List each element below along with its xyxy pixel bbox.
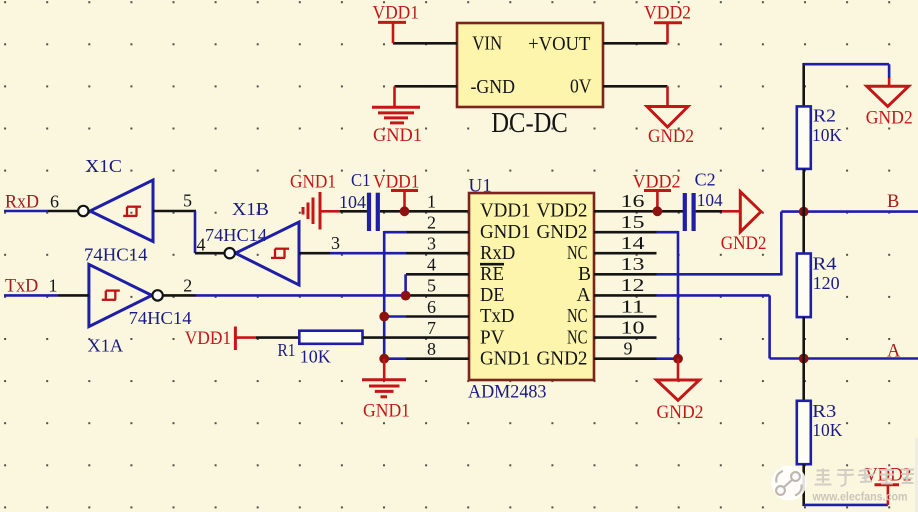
svg-text:14: 14 [621, 233, 645, 253]
wire X1B output [195, 252, 225, 255]
svg-text:RE: RE [480, 264, 504, 285]
wire X1C input [153, 210, 196, 213]
GND2 rail vertical [677, 231, 680, 359]
svg-text:2: 2 [183, 276, 192, 296]
svg-text:GND1: GND1 [373, 126, 422, 146]
svg-text:VIN: VIN [472, 34, 502, 55]
svg-text:X1B: X1B [232, 199, 269, 219]
wire pin6 to gnd rail [384, 315, 406, 318]
svg-text:4: 4 [427, 255, 436, 275]
svg-text:0V: 0V [570, 77, 592, 98]
watermark text (stylized) [815, 469, 915, 487]
svg-text:NC: NC [567, 243, 588, 264]
svg-text:2: 2 [427, 213, 436, 233]
wire +VOUT to VDD2 [603, 42, 668, 45]
ground GND2 (rotated right, at C2) [721, 192, 767, 254]
svg-text:GND1: GND1 [363, 402, 410, 422]
resistor R3 10K [797, 401, 843, 464]
wire R3 bottom [802, 464, 805, 506]
svg-text:A: A [887, 342, 901, 362]
inverter X1A (74HC14) [88, 264, 192, 355]
U1 right pin numbers 16-9 [621, 191, 645, 359]
watermark logo [772, 466, 807, 501]
ground GND1 (below U1) [362, 359, 410, 422]
svg-text:RxD: RxD [5, 193, 39, 213]
wire X1A output to U1 DE [163, 294, 196, 297]
wire TxD to X1A input [4, 294, 58, 297]
svg-text:VDD1: VDD1 [373, 4, 420, 24]
svg-text:VDD1: VDD1 [185, 329, 231, 349]
wire VDD1 to VIN [393, 42, 457, 45]
svg-text:74HC14: 74HC14 [129, 308, 192, 328]
svg-text:13: 13 [621, 254, 645, 274]
svg-text:11: 11 [621, 296, 645, 316]
resistor R1 10K [278, 331, 363, 367]
wire pin12 to A [657, 294, 770, 297]
svg-text:15: 15 [621, 212, 645, 232]
svg-text:5: 5 [427, 276, 436, 296]
junction pin9 [673, 354, 683, 364]
svg-text:NC: NC [567, 327, 588, 348]
svg-text:GND1: GND1 [480, 348, 531, 369]
power VDD1 (at U1 pin1) [373, 173, 420, 212]
power VDD2 (top right of DC-DC) [644, 4, 691, 44]
junction B [799, 207, 809, 217]
junction pin16/VDD2 [653, 206, 663, 216]
wire pin13 to B [657, 273, 782, 276]
svg-text:B: B [887, 192, 899, 212]
wire pin2 to gnd rail [384, 231, 407, 234]
svg-text:10K: 10K [300, 347, 331, 367]
svg-text:GND2: GND2 [866, 109, 913, 129]
hysteresis icon X1B [271, 249, 289, 258]
wire C2 to GND2 [696, 210, 722, 213]
wire VDD1 to R1 [256, 336, 299, 339]
svg-text:R2: R2 [813, 106, 836, 126]
svg-text:TxD: TxD [480, 306, 515, 327]
U1 left pin numbers 1-8 [427, 192, 436, 360]
IC U1 ADM2483 [468, 176, 594, 403]
svg-text:12: 12 [621, 275, 645, 295]
wire R4 bottom to A [802, 317, 805, 358]
svg-text:GND2: GND2 [648, 127, 694, 147]
svg-text:-GND: -GND [471, 77, 516, 98]
svg-text:6: 6 [50, 192, 59, 212]
svg-text:6: 6 [427, 297, 436, 317]
svg-text:VDD1: VDD1 [480, 201, 531, 222]
svg-text:GND1: GND1 [290, 173, 336, 193]
wire 0V to GND2 [603, 85, 668, 88]
ground GND1 (rotated, at C1) [290, 173, 340, 230]
wire GND1 to -GND [395, 85, 458, 88]
wire RxD to X1C output [4, 210, 48, 213]
power VDD2 (at U1 pin16) [633, 173, 681, 212]
junction A [799, 354, 809, 364]
wire A to R3 top [802, 359, 805, 401]
wire B to R4 top [802, 212, 805, 254]
power VDD1 (rotated, at R1) [185, 327, 256, 351]
svg-text:TxD: TxD [5, 277, 38, 297]
svg-text:GND2: GND2 [537, 348, 588, 369]
resistor R2 10K [797, 106, 842, 169]
wire pin15 to GND2 rail [657, 231, 679, 234]
inverter X1C (74HC14) [78, 156, 153, 265]
wire pin9 to GND2 rail [657, 357, 679, 360]
svg-text:R3: R3 [812, 401, 836, 421]
resistor R4 120 [797, 254, 840, 318]
svg-text:B: B [578, 264, 591, 285]
hysteresis icon X1A [102, 291, 120, 300]
wire pin8 to gnd rail [384, 357, 406, 360]
svg-text:A: A [577, 285, 591, 306]
svg-text:VDD2: VDD2 [644, 4, 691, 24]
wire R2 top [802, 63, 805, 106]
svg-text:DC-DC: DC-DC [491, 108, 568, 139]
U1 left pin stubs [406, 232, 469, 359]
power VDD2 (bottom right) [865, 466, 911, 486]
ground GND2 (below DC-DC right) [647, 86, 694, 147]
wire pin16 to C2 [594, 210, 683, 213]
wire A dropper [768, 295, 771, 358]
wire R1 to U1 pin7 PV [363, 336, 470, 339]
svg-text:C1: C1 [351, 170, 371, 190]
svg-text:+VOUT: +VOUT [528, 34, 590, 55]
svg-text:10K: 10K [812, 125, 842, 145]
svg-text:C2: C2 [695, 170, 716, 190]
wire R2 bottom to B [802, 169, 805, 212]
gnd rail vertical [383, 231, 386, 359]
svg-text:1: 1 [427, 192, 436, 212]
svg-text:X1A: X1A [88, 336, 124, 356]
capacitor C1 104 [339, 170, 378, 231]
svg-text:1: 1 [49, 276, 58, 296]
ground GND2 (below U1 right) [657, 359, 704, 423]
svg-text:9: 9 [624, 339, 633, 359]
wire pin4 tie to pin5 [404, 274, 407, 295]
svg-text:120: 120 [813, 273, 840, 293]
svg-text:104: 104 [697, 190, 723, 210]
junction pin8 [379, 354, 389, 364]
ground GND1 (below DC-DC left) [372, 86, 422, 146]
wire B riser [780, 212, 783, 276]
svg-text:NC: NC [567, 306, 588, 327]
svg-text:GND2: GND2 [657, 403, 704, 423]
svg-text:DE: DE [480, 285, 505, 306]
capacitor C2 104 [685, 170, 723, 232]
svg-text:3: 3 [331, 233, 340, 253]
junction pin4/pin5 [401, 291, 411, 301]
inverter X1B (74HC14) [205, 199, 299, 285]
hysteresis icon X1C [123, 207, 141, 216]
svg-text:X1C: X1C [85, 156, 122, 176]
svg-text:VDD2: VDD2 [537, 201, 588, 222]
svg-text:7: 7 [427, 318, 436, 338]
ground GND2 (top right) [866, 86, 913, 128]
U1 right pin stubs [594, 232, 657, 359]
junction pin1/VDD1 [400, 206, 410, 216]
svg-text:R1: R1 [278, 340, 296, 360]
svg-text:10: 10 [621, 317, 645, 337]
svg-text:4: 4 [197, 235, 206, 255]
svg-text:104: 104 [339, 192, 366, 212]
wire X1B input to U1 pin3 [299, 252, 330, 255]
svg-text:74HC14: 74HC14 [84, 245, 148, 265]
wire net B [781, 210, 918, 213]
svg-text:GND1: GND1 [480, 222, 531, 243]
svg-text:RxD: RxD [480, 243, 515, 264]
DC-DC converter module [457, 23, 603, 139]
svg-text:16: 16 [621, 191, 645, 211]
junction pin6 [379, 312, 389, 322]
svg-text:10K: 10K [812, 420, 842, 440]
wire C1 to U1 pin1 [380, 210, 469, 213]
wire gnd to C1 [340, 210, 367, 213]
svg-text:www.elecfans.com: www.elecfans.com [812, 492, 908, 504]
svg-text:GND2: GND2 [721, 234, 767, 254]
svg-text:8: 8 [427, 339, 436, 359]
svg-text:R4: R4 [813, 254, 837, 274]
svg-text:GND2: GND2 [537, 222, 588, 243]
watermark edge strip [915, 438, 918, 512]
power VDD1 (top left of DC-DC) [373, 4, 420, 44]
svg-text:ADM2483: ADM2483 [468, 382, 547, 403]
svg-text:5: 5 [183, 191, 192, 211]
svg-text:3: 3 [427, 234, 436, 254]
wire corner to X1B output [194, 211, 197, 253]
wire net A [770, 357, 918, 360]
svg-text:PV: PV [480, 327, 505, 348]
